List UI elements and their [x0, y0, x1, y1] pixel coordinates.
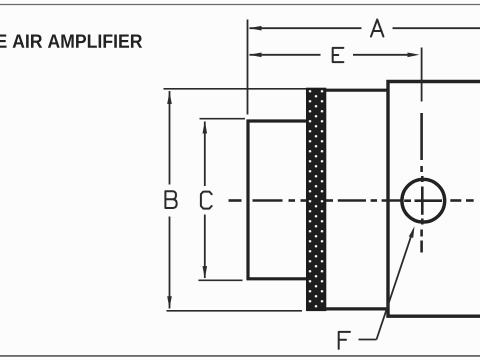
arrow F — [409, 226, 415, 238]
bottom border rule — [0, 355, 480, 357]
arrow B bottom — [167, 296, 172, 309]
horizontal centerline — [229, 199, 474, 202]
arrow C top — [203, 121, 208, 134]
knurled ring (dimension B) — [307, 89, 326, 311]
extension line B top — [164, 88, 307, 90]
label B — [165, 191, 176, 208]
extension line C bottom — [198, 279, 242, 281]
title text (clipped at left edge) — [0, 35, 142, 48]
flange (left small cylinder, dimension C) — [248, 121, 307, 279]
top border rule — [0, 4, 480, 6]
arrow E left — [249, 53, 262, 58]
dim line B — [169, 91, 171, 185]
arrow E right — [408, 53, 420, 58]
label E — [333, 48, 344, 62]
mid section — [326, 90, 390, 309]
label F — [339, 332, 350, 349]
extension line B bottom — [167, 310, 303, 312]
arrow A left — [249, 26, 262, 31]
vertical centerline of hole — [420, 113, 423, 253]
large body — [388, 82, 480, 317]
leader line F — [359, 339, 377, 341]
arrow C bottom — [203, 266, 208, 279]
extension line C top — [200, 118, 246, 120]
label A — [371, 20, 383, 37]
dim line E — [250, 54, 321, 56]
extension line right of E (hole centerline extension) — [421, 48, 423, 102]
label C — [201, 192, 212, 209]
dim line C — [204, 122, 206, 187]
hole circle F — [402, 179, 445, 222]
extension line left (shared A/E) — [247, 20, 249, 115]
dim line A — [250, 27, 362, 29]
arrow B top — [167, 92, 172, 105]
